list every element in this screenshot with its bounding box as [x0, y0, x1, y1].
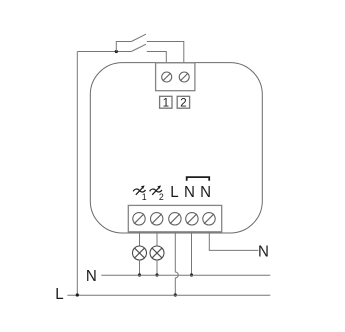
wire: L terminal drop with hop over N line	[175, 232, 178, 295]
terminal block top (inputs)	[156, 63, 195, 91]
node: L-line junction	[174, 293, 177, 296]
lamp E1	[133, 246, 147, 260]
wire: lamp 1 to N line	[139, 260, 141, 275]
dimmer output symbol 1 (arrow through sine)	[133, 185, 146, 202]
svg-text:N: N	[184, 184, 195, 201]
node: N-line junction	[190, 273, 193, 276]
screw terminal input 1	[162, 72, 172, 82]
wire: upper switch out to terminal 2	[147, 42, 184, 64]
node: lamp2-N junction	[155, 273, 158, 276]
screw terminal N (first)	[186, 213, 198, 225]
svg-text:1: 1	[163, 95, 170, 109]
dimmer output symbol 2 (arrow through sine)	[150, 185, 164, 202]
wire: lower switch out to terminal 1	[147, 52, 167, 64]
svg-text:N: N	[200, 184, 211, 201]
net N line	[101, 274, 270, 276]
label box 2	[177, 95, 189, 109]
svg-text:1: 1	[142, 192, 147, 202]
svg-text:N: N	[86, 268, 97, 285]
wire: lamp 2 drop (terminal to lamp)	[156, 232, 158, 246]
screw terminal out 1	[133, 213, 145, 225]
bracket linking N-N terminals	[187, 177, 210, 181]
svg-text:L: L	[170, 184, 179, 201]
wire: switch feed horizontal	[77, 51, 131, 53]
switch S2 blade (lower)	[131, 44, 146, 51]
label box 1	[160, 95, 172, 109]
wire: riser to upper switch	[116, 42, 131, 52]
screw terminal L	[169, 213, 181, 225]
wire: second N terminal branch to right N	[209, 232, 258, 251]
terminal block bottom (outputs)	[128, 205, 221, 231]
switch S1 blade (upper)	[131, 34, 146, 41]
svg-text:L: L	[55, 286, 64, 303]
node: feed riser to L line	[76, 293, 79, 296]
svg-text:2: 2	[180, 95, 186, 109]
screw terminal input 2	[179, 72, 189, 82]
wire: N terminal drop to N line	[191, 232, 193, 275]
wire: lamp 1 drop (terminal to lamp)	[139, 232, 141, 246]
svg-text:N: N	[258, 243, 269, 260]
screw terminal out 2	[151, 213, 163, 225]
svg-text:2: 2	[159, 192, 164, 202]
wire: lamp 2 to N line	[156, 260, 158, 275]
node: feed junction	[115, 50, 118, 53]
device outline (flush-mounted dimmer actuator)	[90, 63, 262, 233]
wire: left feed riser from switch line down to L line	[76, 52, 78, 296]
node: lamp1-N junction	[138, 273, 141, 276]
net L line	[67, 294, 270, 296]
lamp E2	[150, 246, 164, 260]
screw terminal N (second)	[203, 213, 215, 225]
